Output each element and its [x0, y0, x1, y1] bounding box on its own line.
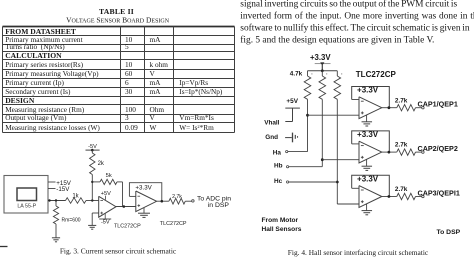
svg-text:+3.3V: +3.3V [135, 184, 152, 191]
svg-text:TLC272CP: TLC272CP [114, 224, 141, 230]
svg-text:2.7k: 2.7k [395, 142, 408, 149]
svg-text:in DSP: in DSP [208, 202, 230, 209]
svg-text:Rm=600: Rm=600 [62, 217, 81, 223]
svg-text:10: 10 [125, 60, 133, 69]
svg-text:Is=Ip*(Ns/Np): Is=Ip*(Ns/Np) [179, 87, 223, 96]
svg-text:To DSP: To DSP [437, 229, 461, 236]
svg-text:Hall Sensors: Hall Sensors [262, 226, 302, 233]
svg-text:Fig. 4. Hall sensor interfacin: Fig. 4. Hall sensor interfacing circuit … [288, 248, 429, 257]
svg-text:Vm=Rm*Is: Vm=Rm*Is [179, 113, 214, 122]
svg-text:4.7k: 4.7k [290, 71, 303, 78]
svg-text:mA: mA [150, 78, 162, 87]
svg-text:W= Is2*Rm: W= Is2*Rm [179, 123, 214, 132]
svg-text:CAP3/QEPI1: CAP3/QEPI1 [418, 188, 460, 197]
svg-text:3: 3 [125, 113, 129, 122]
svg-text:5: 5 [125, 42, 129, 51]
svg-text:Measuring resistance losses (W: Measuring resistance losses (W) [5, 123, 100, 132]
svg-text:software to nullify this effec: software to nullify this effect. The cir… [240, 22, 470, 33]
svg-text:CAP2/QEP2: CAP2/QEP2 [418, 144, 458, 153]
svg-text:2k: 2k [98, 161, 105, 167]
svg-text:Ip=Vp/Rs: Ip=Vp/Rs [179, 78, 208, 87]
svg-text:Ha: Ha [273, 149, 282, 156]
svg-text:signal inverting circuits so t: signal inverting circuits so the output … [240, 0, 457, 9]
svg-text:5k: 5k [106, 173, 112, 179]
svg-text:mA: mA [150, 35, 162, 44]
svg-text:Output voltage (Vm): Output voltage (Vm) [5, 113, 67, 122]
svg-text:30: 30 [125, 87, 133, 96]
svg-text:0.09: 0.09 [125, 123, 138, 132]
svg-text:Turns ratio (Np/Ns): Turns ratio (Np/Ns) [5, 42, 65, 51]
svg-text:2.7k: 2.7k [395, 186, 408, 193]
svg-text:Fig. 3. Current sensor circuit: Fig. 3. Current sensor circuit schematic [60, 247, 177, 256]
svg-text:+3.3V: +3.3V [310, 53, 331, 62]
svg-text:+3.3V: +3.3V [357, 130, 379, 139]
svg-text:Vhall: Vhall [264, 120, 279, 127]
svg-text:fig. 5 and the design equation: fig. 5 and the design equations are give… [240, 34, 434, 45]
svg-text:2.7k: 2.7k [395, 97, 408, 104]
svg-text:V: V [150, 69, 156, 78]
svg-text:Secondary current (Is): Secondary current (Is) [5, 87, 71, 96]
svg-text:LA 55-P: LA 55-P [17, 204, 36, 210]
svg-text:Primary series resistor(Rs): Primary series resistor(Rs) [5, 60, 83, 69]
svg-text:From Motor: From Motor [262, 217, 299, 224]
svg-text:2.7k: 2.7k [172, 194, 182, 200]
svg-text:+3.3V: +3.3V [357, 175, 379, 184]
svg-text:CAP1/QEP1: CAP1/QEP1 [418, 100, 458, 109]
svg-text:60: 60 [125, 69, 133, 78]
svg-text:Primary measuring Voltage(Vp): Primary measuring Voltage(Vp) [5, 69, 99, 78]
svg-text:V: V [150, 113, 156, 122]
svg-text:k ohm: k ohm [150, 60, 169, 69]
svg-text:VOLTAGE SENSOR BOARD DESIGN: VOLTAGE SENSOR BOARD DESIGN [66, 16, 170, 25]
svg-text:Hc: Hc [274, 178, 283, 185]
svg-text:TLC272CP: TLC272CP [356, 70, 397, 79]
svg-text:mA: mA [150, 87, 162, 96]
svg-text:Primary current (Ip): Primary current (Ip) [5, 78, 64, 87]
svg-text:W: W [150, 123, 157, 132]
svg-text:inverted form of the input. On: inverted form of the input. One more inv… [240, 10, 474, 21]
svg-text:CALCULATION: CALCULATION [5, 51, 62, 60]
svg-text:6: 6 [125, 78, 129, 87]
svg-text:-15V: -15V [56, 186, 70, 193]
svg-text:TLC272CP: TLC272CP [160, 221, 187, 227]
svg-text:Gnd: Gnd [265, 134, 278, 141]
svg-text:Hb: Hb [274, 162, 283, 169]
svg-text:+5V: +5V [286, 98, 298, 105]
svg-text:-5V: -5V [101, 220, 110, 226]
svg-text:DESIGN: DESIGN [5, 96, 35, 105]
svg-text:+3.3V: +3.3V [357, 86, 379, 95]
svg-text:TABLE II: TABLE II [99, 7, 134, 16]
svg-text:1k: 1k [72, 193, 79, 199]
